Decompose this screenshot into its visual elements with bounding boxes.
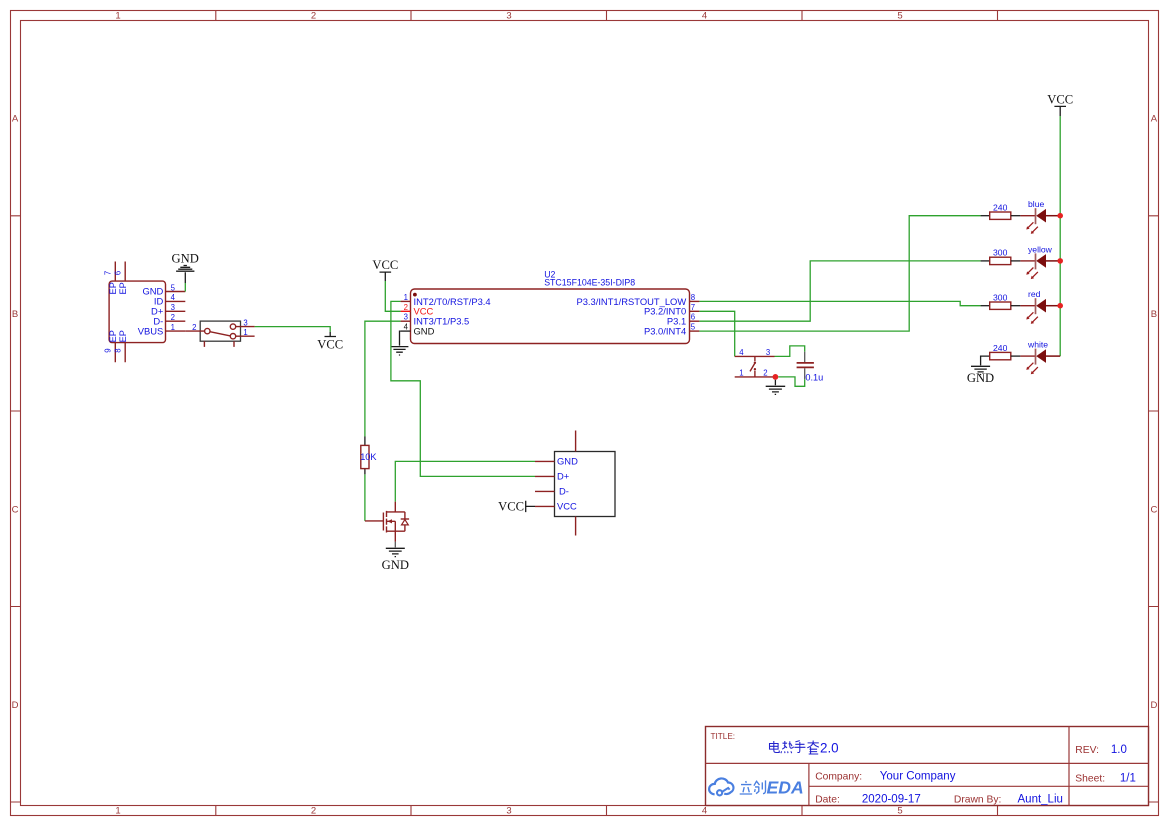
junction at switch pin2 [773,374,779,380]
LED row yellow: resistor R3 300 [981,248,1021,265]
svg-text:Drawn By:: Drawn By: [954,794,1002,805]
pin 6 P3.1 [690,320,700,322]
svg-text:300: 300 [993,293,1008,303]
heater connector J1 [535,431,615,536]
svg-text:240: 240 [993,343,1008,353]
电 [770,741,780,753]
pin 1 INT2/T0/RST/P3.4 [401,300,411,302]
title block [706,727,1149,806]
frame row labels left [12,113,19,711]
USB connector P1 [104,262,186,363]
svg-text:GND: GND [382,558,409,572]
手 [794,741,805,753]
svg-text:3: 3 [243,319,247,328]
junction blue LED [1057,213,1063,219]
svg-text:STC15F104E-35I-DIP8: STC15F104E-35I-DIP8 [544,278,635,288]
wire 10K to MOSFET gate [364,474,366,521]
wire capacitor to switch pin2 [778,377,804,386]
wire switch pin3 to capacitor [775,346,805,357]
pin 2 VCC [401,310,411,312]
logo text 立创EDA [740,780,766,794]
svg-text:Sheet:: Sheet: [1075,773,1105,784]
wire MCU pin7 to key switch [699,311,734,356]
svg-text:REV:: REV: [1075,745,1099,756]
svg-text:2.0: 2.0 [820,741,839,756]
frame column labels bottom [115,806,902,817]
frame row labels right [1150,113,1157,711]
svg-text:EDA: EDA [767,778,804,798]
pin 5 P3.0/INT4 [690,330,700,332]
wire MCU pin1 to heater D+ [391,301,535,476]
svg-text:4: 4 [739,348,744,357]
wire switch pin3 to VCC [255,327,331,332]
svg-text:240: 240 [993,203,1008,213]
svg-text:5: 5 [171,283,176,292]
logo lceda cloud [709,778,733,795]
svg-text:VCC: VCC [557,501,577,512]
svg-text:5: 5 [897,10,902,21]
wire VCC rail [1059,116,1061,356]
svg-text:Date:: Date: [815,794,840,805]
svg-text:EP: EP [118,330,128,342]
svg-text:A: A [12,113,19,124]
svg-text:5: 5 [691,323,696,332]
svg-text:D+: D+ [557,471,570,482]
立 [740,781,752,794]
svg-text:2: 2 [311,10,316,21]
svg-text:3: 3 [506,10,511,21]
svg-text:B: B [1151,309,1157,320]
resistor R1 10K [360,437,377,475]
svg-text:1: 1 [171,323,175,332]
LED row white: resistor R5 240 [981,343,1021,366]
svg-text:VCC: VCC [498,500,524,514]
pin 8 P3.3/INT1/RSTOUT_LOW [690,300,700,302]
LED LED3 red [1020,289,1060,324]
svg-text:EP: EP [118,282,128,294]
svg-text:9: 9 [104,348,113,352]
svg-text:P3.0/INT4: P3.0/INT4 [644,326,686,337]
junction yellow LED [1057,258,1063,264]
LED row blue: resistor R2 240 [981,203,1021,220]
svg-text:D: D [1150,700,1157,711]
svg-text:white: white [1027,340,1048,350]
svg-text:VCC: VCC [1047,93,1073,107]
套 [807,741,819,755]
svg-text:Aunt_Liu: Aunt_Liu [1018,793,1063,805]
LED LED2 yellow [1020,244,1060,279]
svg-text:4: 4 [702,806,707,817]
pin 3 INT3/T1/P3.5 [401,320,411,322]
svg-text:1.0: 1.0 [1111,744,1127,756]
svg-text:2: 2 [404,303,408,312]
svg-text:4: 4 [702,10,707,21]
svg-text:0.1u: 0.1u [805,373,823,383]
svg-text:2: 2 [763,368,767,377]
svg-text:yellow: yellow [1028,244,1053,254]
title text 电热手套2.0 [770,741,839,756]
svg-text:EP: EP [108,330,118,342]
svg-text:VCC: VCC [317,338,343,352]
junction red LED [1057,303,1063,309]
svg-text:3: 3 [766,348,770,357]
svg-text:1: 1 [115,806,120,817]
svg-text:Your Company: Your Company [880,771,956,783]
svg-text:TITLE:: TITLE: [711,732,736,741]
svg-text:GND: GND [172,252,199,266]
LED row red: resistor R4 300 [981,293,1021,310]
svg-text:300: 300 [993,248,1008,258]
pin 4 GND [401,330,411,332]
wire MCU pin5 to blue LED [699,216,980,331]
创 [754,780,766,793]
slide switch SW1 [185,319,254,347]
LED LED4 white [1020,340,1060,375]
svg-text:3: 3 [506,806,511,817]
svg-text:C: C [1150,504,1157,515]
svg-text:GND: GND [557,456,578,467]
wire MOSFET drain to heater GND [395,461,535,501]
svg-text:8: 8 [691,293,695,302]
svg-text:2020-09-17: 2020-09-17 [862,793,921,805]
svg-text:7: 7 [104,271,113,275]
ground flag at white LED [967,366,994,385]
wire MCU pin3 to 10K resistor [365,321,401,436]
svg-text:4: 4 [171,293,176,302]
svg-text:Company:: Company: [815,772,862,783]
wire VCC to MCU pin 2 [385,281,400,311]
svg-text:2: 2 [192,323,196,332]
VCC flag below switch [317,332,343,352]
svg-text:A: A [1151,113,1158,124]
svg-text:VBUS: VBUS [138,325,164,336]
capacitor C1 0.1u [797,352,824,383]
svg-text:6: 6 [114,271,123,275]
VCC flag top right [1047,93,1073,117]
LED LED1 blue [1020,199,1060,234]
key switch S1 [735,348,776,378]
svg-text:red: red [1028,289,1041,299]
svg-text:1: 1 [739,368,743,377]
svg-text:1: 1 [243,328,247,337]
wire MCU pin8 to red LED [699,301,980,305]
ground flag below switch [766,380,786,395]
svg-text:1: 1 [404,293,408,302]
svg-text:D: D [12,700,19,711]
transistor Q1 NMOS [365,502,409,542]
svg-text:GND: GND [967,371,994,385]
svg-text:D-: D- [559,486,569,497]
svg-text:2: 2 [171,313,175,322]
svg-text:GND: GND [414,326,435,337]
热 [782,741,794,749]
svg-text:6: 6 [691,313,695,322]
ground flag at USB pin 5 [172,252,199,292]
svg-text:1/1: 1/1 [1120,772,1136,784]
svg-text:7: 7 [691,303,695,312]
svg-text:10K: 10K [360,452,377,462]
frame column labels top [115,10,902,21]
svg-text:EP: EP [108,282,118,294]
svg-text:blue: blue [1028,199,1044,209]
ground flag at MCU pin 4 [391,331,409,355]
svg-text:3: 3 [171,303,175,312]
VCC flag above MCU [372,258,398,281]
svg-text:3: 3 [404,313,408,322]
svg-text:5: 5 [897,806,902,817]
svg-text:1: 1 [115,10,120,21]
pin 7 P3.2/INT0 [690,310,700,312]
VCC flag at heater connector [498,500,535,514]
MCU U2 STC15F104E-35I-DIP8 [401,270,700,344]
wire MCU pin6 to yellow LED [699,261,980,321]
svg-text:VCC: VCC [372,258,398,272]
ground flag below MOSFET [382,542,409,572]
svg-text:C: C [12,504,19,515]
svg-text:4: 4 [404,323,409,332]
svg-text:8: 8 [114,348,123,352]
svg-text:2: 2 [311,806,316,817]
svg-text:B: B [12,309,18,320]
